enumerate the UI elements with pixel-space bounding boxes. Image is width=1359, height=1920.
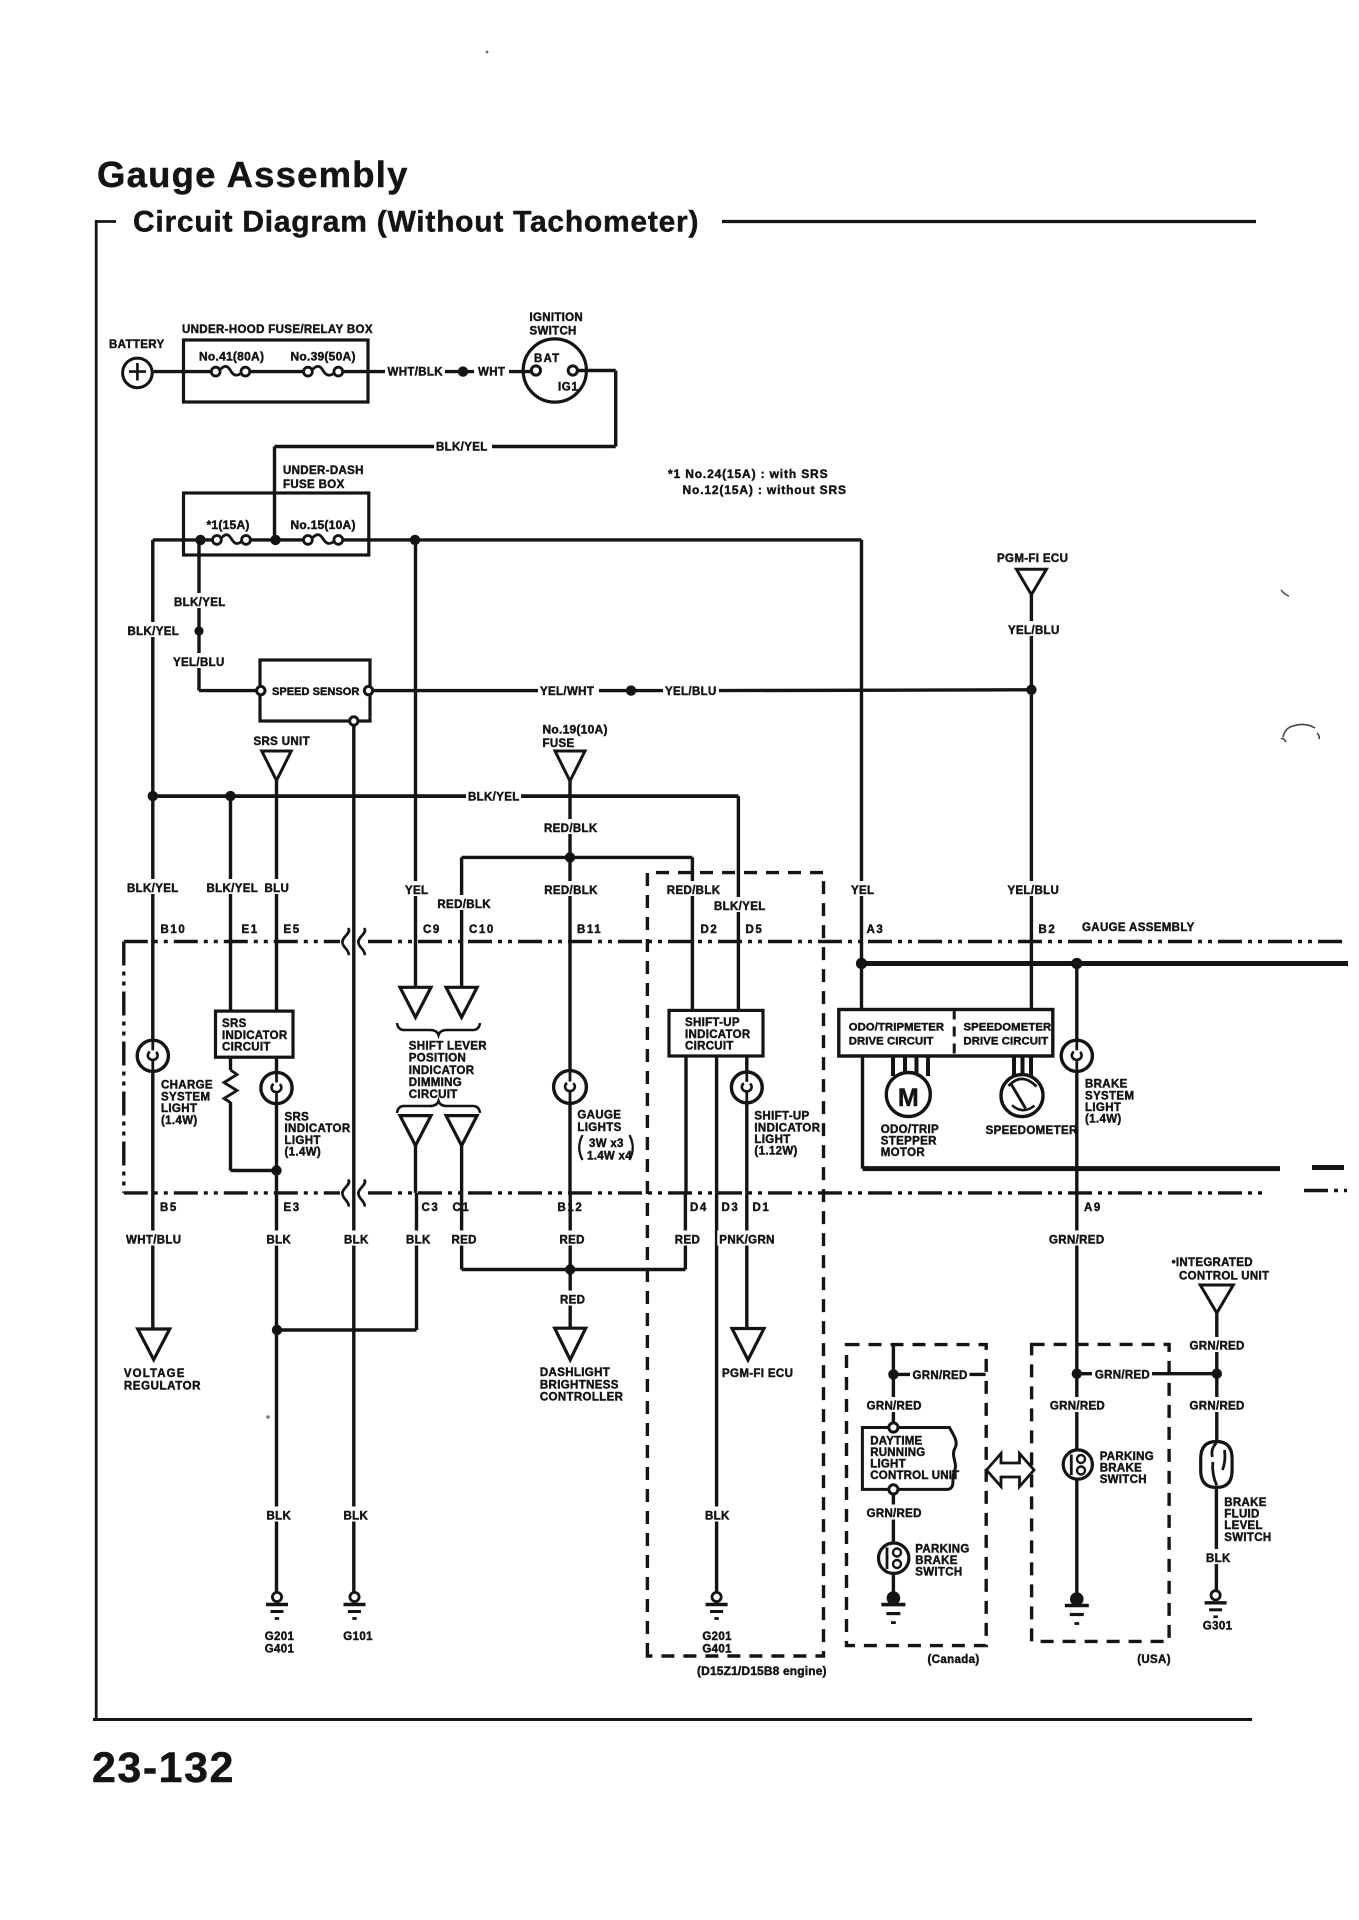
junction dot E3/C3 (272, 1325, 282, 1335)
wire speed-sensor feed riser (197, 540, 200, 691)
junction dot Canada GRN/RED (888, 1369, 898, 1379)
svg-text:(1.4W): (1.4W) (161, 1115, 198, 1127)
label YEL/BLU below ECU (1006, 621, 1060, 636)
svg-text:CIRCUIT: CIRCUIT (685, 1041, 734, 1053)
svg-text:FUSE: FUSE (543, 738, 575, 750)
junction dot bus at B10 riser (148, 791, 158, 801)
svg-text:PARKING: PARKING (1100, 1451, 1154, 1463)
svg-text:GRN/RED: GRN/RED (1190, 1401, 1245, 1413)
junction dot USA GRN/RED (1072, 1369, 1082, 1379)
divider dashed between drive circuits (953, 1010, 956, 1057)
svg-text:No.19(10A): No.19(10A) (543, 723, 608, 737)
svg-text:*1 No.24(15A) : with SRS: *1 No.24(15A) : with SRS (668, 467, 828, 481)
label GRN/RED Canada below dot (865, 1397, 923, 1412)
svg-text:SHIFT-UP: SHIFT-UP (685, 1017, 740, 1029)
wire D1 column down (745, 1193, 748, 1329)
svg-text:BLK/YEL: BLK/YEL (128, 626, 180, 638)
svg-text:IGNITION: IGNITION (530, 312, 584, 324)
svg-text:BLU: BLU (265, 883, 290, 895)
ignition terminal IG1 (568, 366, 577, 375)
label BLK/YEL on B10 riser (126, 622, 180, 637)
svg-text:C9: C9 (423, 924, 441, 936)
svg-text:BLK: BLK (267, 1235, 292, 1247)
svg-text:B10: B10 (161, 924, 187, 936)
svg-text:SRS: SRS (222, 1018, 247, 1030)
wire C10 drop (460, 857, 463, 987)
svg-text:GRN/RED: GRN/RED (1095, 1369, 1150, 1381)
ground USA (1070, 1592, 1084, 1606)
svg-text:BRAKE: BRAKE (1224, 1497, 1266, 1509)
svg-text:BAT: BAT (534, 353, 560, 365)
connector triangle PGM-FI ECU top (1016, 569, 1046, 595)
label BLK/YEL on speed sensor feed (172, 593, 226, 608)
splice dot BLK/YEL to YEL/BLU (194, 626, 203, 635)
parking brake switch Canada (879, 1543, 909, 1573)
wire BLK/YEL down into under-dash fuse box (273, 447, 276, 540)
label RED at D4 (673, 1231, 702, 1246)
wire A3 into drive box (860, 964, 863, 1010)
shift-up indicator light bulb (731, 1072, 762, 1103)
label BLK above G201 right (703, 1507, 731, 1522)
svg-text:GRN/RED: GRN/RED (867, 1401, 922, 1413)
junction dot A3 bus (856, 958, 867, 969)
svg-text:Gauge Assembly: Gauge Assembly (97, 154, 409, 195)
speedometer pins (1012, 1056, 1016, 1077)
wire fluid switch to ground (1215, 1488, 1218, 1591)
dashed option box Canada (847, 1345, 987, 1646)
svg-text:D3: D3 (722, 1202, 740, 1214)
label RED at C1 (450, 1231, 479, 1246)
junction dot E5/E1 join (271, 1165, 281, 1175)
connector triangle SRS unit (262, 751, 292, 781)
page frame top-left tick (95, 220, 116, 223)
svg-text:LIGHT: LIGHT (870, 1459, 906, 1471)
svg-text:BLK/YEL: BLK/YEL (127, 883, 179, 895)
label YEL/BLU above B2 (1006, 881, 1061, 896)
shift lever triangle C9 (400, 987, 431, 1017)
connector triangle integrated control unit (1200, 1285, 1233, 1313)
svg-text:G201: G201 (702, 1631, 732, 1643)
double arrow between Canada and USA (987, 1454, 1035, 1487)
gauge assembly connector line bottom (124, 1191, 340, 1194)
svg-text:VOLTAGE: VOLTAGE (124, 1368, 186, 1380)
svg-text:RED/BLK: RED/BLK (667, 885, 721, 897)
wire below charge light (151, 1071, 154, 1193)
brake system light bulb (1075, 964, 1078, 1042)
wire C9 riser YEL (414, 540, 417, 987)
svg-text:B2: B2 (1039, 924, 1057, 936)
svg-text:INDICATOR: INDICATOR (285, 1123, 351, 1135)
svg-text:A9: A9 (1084, 1202, 1102, 1214)
junction dot brake light branch (1071, 958, 1082, 969)
gauge lights bulb (554, 1071, 587, 1104)
gauge assembly connector line top (124, 940, 340, 943)
svg-text:(USA): (USA) (1137, 1654, 1171, 1666)
svg-text:SYSTEM: SYSTEM (161, 1091, 210, 1103)
junction dot bus at E1 (225, 791, 235, 801)
svg-text:CONTROL UNIT: CONTROL UNIT (870, 1470, 959, 1482)
wire A9 to parking brake switch USA (1075, 1374, 1078, 1450)
wire BLK/YEL horizontal to under-dash box (492, 445, 616, 448)
wire fuse1 to center node (250, 538, 303, 541)
svg-text:RED: RED (560, 1235, 585, 1247)
junction dot PGM-FI ECU node (1026, 685, 1036, 695)
wire D5 drop from bus (737, 796, 740, 1010)
label (3Wx3 1.4Wx4) (579, 1135, 582, 1160)
svg-text:RED/BLK: RED/BLK (544, 885, 598, 897)
break mark left lower (342, 1180, 349, 1205)
svg-text:No.12(15A) : without SRS: No.12(15A) : without SRS (683, 483, 847, 497)
wire speed sensor ground column upper (352, 725, 355, 1592)
svg-text:INDICATOR: INDICATOR (409, 1065, 475, 1077)
svg-text:WHT: WHT (478, 367, 505, 379)
junction dot ICU GRN/RED (1212, 1369, 1222, 1379)
svg-text:UNDER-HOOD FUSE/RELAY BOX: UNDER-HOOD FUSE/RELAY BOX (182, 324, 373, 336)
under-hood fuse/relay box (184, 340, 369, 402)
svg-text:POSITION: POSITION (409, 1053, 466, 1065)
shift-up indicator circuit box (669, 1010, 763, 1056)
voltage regulator triangle (138, 1329, 170, 1360)
wire WHT/BLK to node (445, 370, 474, 373)
svg-text:GAUGE ASSEMBLY: GAUGE ASSEMBLY (1082, 922, 1195, 934)
wire IG1 to corner (577, 369, 615, 372)
wire C1 column down (460, 1193, 463, 1270)
svg-text:IG1: IG1 (558, 382, 578, 394)
wire D2 drop (691, 857, 694, 1010)
junction dot C9 branch (410, 535, 420, 545)
svg-text:E1: E1 (242, 924, 259, 936)
label RED/BLK above D2 (665, 881, 721, 896)
label BLK above G201 left (265, 1507, 293, 1522)
brake fluid level switch (1201, 1442, 1232, 1488)
splice dot YEL/WHT to YEL/BLU (626, 685, 636, 695)
wire D4 from box (684, 1056, 687, 1193)
svg-text:RED: RED (675, 1235, 700, 1247)
svg-text:G301: G301 (1203, 1621, 1233, 1633)
label GRN/RED above fluid switch (1188, 1397, 1246, 1412)
svg-text:D5: D5 (746, 924, 764, 936)
DRL control unit terminal bottom (889, 1485, 898, 1494)
wire SRS triangle stub (275, 781, 278, 797)
label RED below B12 junction (558, 1291, 587, 1306)
svg-text:E5: E5 (284, 924, 301, 936)
wire C3 jog to E3 (277, 1328, 417, 1331)
break mark right lower (358, 1180, 365, 1205)
resistor SRS indicator (229, 1057, 232, 1070)
svg-text:INDICATOR: INDICATOR (685, 1029, 751, 1041)
svg-text:B11: B11 (577, 924, 602, 936)
label WHT/BLU (124, 1231, 182, 1246)
svg-text:SWITCH: SWITCH (1224, 1532, 1271, 1544)
label BLU above E5 (263, 879, 291, 894)
svg-text:GRN/RED: GRN/RED (913, 1370, 968, 1382)
wire D3 column to ground (715, 1193, 718, 1592)
svg-text:CHARGE: CHARGE (161, 1080, 213, 1092)
svg-text:RED/BLK: RED/BLK (437, 899, 491, 911)
svg-text:(D15Z1/D15B8 engine): (D15Z1/D15B8 engine) (697, 1664, 827, 1678)
wire into fuse row from left riser (153, 538, 213, 541)
wire fuse box to WHT/BLK label (343, 370, 385, 373)
svg-text:DRIVE CIRCUIT: DRIVE CIRCUIT (849, 1036, 934, 1048)
ignition terminal BAT (531, 366, 540, 375)
svg-text:BATTERY: BATTERY (109, 339, 164, 351)
svg-text:PARKING: PARKING (915, 1544, 969, 1556)
dashed option box USA (1032, 1344, 1170, 1641)
label GRN/RED Canada lower (865, 1505, 923, 1520)
wire below gauge lights (568, 1103, 571, 1193)
wire into speed sensor (199, 689, 257, 692)
break mark left at speed sensor wire (342, 929, 349, 954)
charge system light bulb (151, 1041, 154, 1072)
wire D1 from box to bulb (745, 1056, 748, 1073)
PGM-FI ECU triangle bottom (732, 1329, 764, 1361)
wire D4 column down (684, 1193, 687, 1270)
wire switch to ground USA (1075, 1479, 1078, 1595)
wire ICU down (1215, 1313, 1218, 1442)
svg-text:D4: D4 (690, 1202, 708, 1214)
wire B10 riser lower part (151, 796, 154, 1040)
svg-text:E3: E3 (284, 1202, 301, 1214)
speck top (486, 51, 489, 54)
label RED/BLK above C10 (435, 895, 491, 910)
svg-text:M: M (898, 1084, 919, 1112)
wire below shift-up light (745, 1103, 748, 1193)
wire E1 jog to E5 column (231, 1169, 277, 1172)
DRL control unit terminal top (889, 1423, 898, 1432)
svg-text:SRS: SRS (285, 1112, 310, 1124)
svg-text:GAUGE: GAUGE (577, 1110, 621, 1122)
label BLK above G101 (342, 1507, 370, 1522)
wire B11 drop (568, 857, 571, 1071)
svg-text:GRN/RED: GRN/RED (1190, 1341, 1245, 1353)
label BLK at C3 (404, 1231, 432, 1246)
svg-text:LIGHT: LIGHT (754, 1134, 790, 1146)
shift lever triangle C10 (446, 987, 477, 1017)
label YEL/BLU on speed sensor feed (171, 653, 226, 668)
svg-text:CONTROL UNIT: CONTROL UNIT (1179, 1271, 1269, 1283)
svg-text:WHT/BLU: WHT/BLU (126, 1235, 181, 1247)
svg-text:G201: G201 (265, 1631, 295, 1643)
svg-text:BLK: BLK (406, 1235, 431, 1247)
svg-text:MOTOR: MOTOR (881, 1147, 926, 1159)
wire battery to under-hood box (152, 370, 211, 373)
svg-text:BLK: BLK (344, 1235, 369, 1247)
svg-text:SWITCH: SWITCH (915, 1567, 962, 1579)
label BLK/YEL above D5 (712, 897, 767, 912)
svg-text:CONTROLLER: CONTROLLER (540, 1391, 624, 1403)
svg-text:1.4W x4: 1.4W x4 (587, 1151, 632, 1163)
svg-text:DASHLIGHT: DASHLIGHT (540, 1367, 610, 1379)
lower brace (397, 1101, 480, 1113)
wire B12 column down (569, 1193, 572, 1328)
junction dot WHT node (458, 366, 468, 376)
svg-text:STEPPER: STEPPER (881, 1135, 937, 1147)
svg-text:PGM-FI ECU: PGM-FI ECU (722, 1368, 793, 1380)
under-dash fuse box (184, 493, 369, 555)
svg-text:CIRCUIT: CIRCUIT (222, 1042, 271, 1054)
thick ground bus continuation right (1312, 1165, 1344, 1170)
wire E3 column to ground (275, 1193, 278, 1592)
svg-text:(1.12W): (1.12W) (754, 1146, 797, 1158)
battery B+ symbol (123, 358, 153, 388)
svg-text:PNK/GRN: PNK/GRN (719, 1235, 774, 1247)
label RED/BLK above B11 (542, 881, 598, 896)
svg-text:YEL/BLU: YEL/BLU (1008, 885, 1060, 897)
svg-text:ODO/TRIP: ODO/TRIP (881, 1124, 939, 1136)
svg-text:SPEEDOMETER: SPEEDOMETER (964, 1022, 1052, 1034)
wire PGM-FI ECU down to node (1030, 595, 1033, 690)
SRS indicator circuit box (216, 1011, 294, 1057)
ignition switch body (523, 339, 586, 402)
label BLK/YEL above E1 (205, 879, 259, 894)
wire GRN/RED to box edge (893, 1373, 910, 1376)
svg-text:DAYTIME: DAYTIME (870, 1436, 922, 1448)
svg-text:YEL/BLU: YEL/BLU (173, 657, 225, 669)
svg-text:INDICATOR: INDICATOR (754, 1122, 820, 1134)
wire D3 from box (715, 1056, 718, 1193)
svg-text:BLK: BLK (344, 1511, 369, 1523)
label BLK/YEL above B10 (125, 879, 179, 894)
wire down from IG1 (614, 371, 617, 447)
label PNK/GRN at D3/D1 (717, 1231, 776, 1246)
wire C3 column down (415, 1193, 418, 1330)
speed sensor box (260, 660, 370, 721)
svg-text:BLK: BLK (705, 1511, 730, 1523)
svg-text:GRN/RED: GRN/RED (867, 1508, 922, 1520)
svg-text:(1.4W): (1.4W) (285, 1146, 322, 1158)
svg-text:D1: D1 (753, 1202, 771, 1214)
svg-text:YEL/WHT: YEL/WHT (540, 686, 594, 698)
wire C1-D4 jog (462, 1268, 686, 1271)
wire speed sensor output YEL/WHT (373, 689, 538, 692)
svg-text:(Canada): (Canada) (928, 1654, 980, 1666)
svg-text:INDICATOR: INDICATOR (222, 1030, 288, 1042)
speedometer gauge symbol (1001, 1075, 1043, 1117)
svg-text:No.15(10A): No.15(10A) (291, 518, 356, 532)
gauge assembly box left edge (122, 942, 125, 1193)
svg-text:RUNNING: RUNNING (870, 1447, 925, 1459)
svg-text:BLK/YEL: BLK/YEL (468, 792, 520, 804)
wire YEL/BLU to PGM-FI ECU node (719, 688, 1031, 692)
wire WHT to ignition switch BAT (509, 370, 531, 373)
ground Canada (887, 1591, 901, 1605)
wire between fuses (250, 370, 304, 373)
wire RED/BLK horizontal C10 to D2 (462, 856, 693, 859)
label YEL above C9 (403, 881, 430, 896)
wire A3 riser from fuse box (860, 540, 863, 964)
svg-text:SPEEDOMETER: SPEEDOMETER (986, 1125, 1078, 1137)
svg-text:3W x3: 3W x3 (589, 1138, 624, 1150)
svg-text:UNDER-DASH: UNDER-DASH (283, 465, 364, 477)
svg-text:SYSTEM: SYSTEM (1085, 1090, 1134, 1102)
svg-text:BLK/YEL: BLK/YEL (174, 597, 226, 609)
label BLK at G301 (1204, 1549, 1232, 1564)
ground G201/G401 left (272, 1592, 281, 1601)
label YEL above A3 (849, 881, 876, 896)
connector triangle fuse No.19 (555, 751, 585, 781)
svg-text:BLK/YEL: BLK/YEL (714, 901, 766, 913)
svg-text:RED: RED (452, 1235, 477, 1247)
upper brace (397, 1023, 480, 1035)
SRS indicator light bulb (275, 1057, 278, 1073)
svg-text:FUSE BOX: FUSE BOX (283, 479, 345, 491)
dashlight brightness controller triangle (555, 1328, 586, 1360)
page frame left edge (95, 220, 98, 1720)
bus BLK/YEL horizontal (153, 794, 466, 798)
junction dot ignition feed (270, 535, 280, 545)
svg-text:GRN/RED: GRN/RED (1049, 1235, 1104, 1247)
svg-text:YEL: YEL (851, 885, 874, 897)
odo/speedometer drive circuit box (839, 1010, 1053, 1057)
svg-text:BRIGHTNESS: BRIGHTNESS (540, 1379, 619, 1391)
wire GRN/RED USA to ICU column (1077, 1372, 1092, 1375)
parking brake switch USA (1063, 1450, 1092, 1479)
svg-text:DRIVE CIRCUIT: DRIVE CIRCUIT (964, 1036, 1049, 1048)
wire B2 riser YEL/BLU (1030, 690, 1033, 1010)
dimming triangle C1 (446, 1116, 477, 1146)
ground G201/G401 right (712, 1592, 721, 1601)
svg-text:BLK/YEL: BLK/YEL (436, 442, 488, 454)
wire Canada feed down (892, 1345, 895, 1424)
wire switch to ground Canada (892, 1573, 895, 1594)
label GRN/RED at A9 (1047, 1231, 1105, 1246)
svg-text:SRS UNIT: SRS UNIT (254, 736, 310, 748)
svg-text:*1(15A): *1(15A) (207, 518, 250, 532)
svg-text:No.39(50A): No.39(50A) (291, 350, 356, 364)
wire below SRS light to junction (275, 1103, 278, 1193)
svg-text:ODO/TRIPMETER: ODO/TRIPMETER (849, 1022, 944, 1034)
svg-text:LIGHT: LIGHT (1085, 1102, 1121, 1114)
svg-text:SWITCH: SWITCH (1100, 1474, 1147, 1486)
speed sensor terminal left (257, 686, 265, 694)
svg-text:SHIFT LEVER: SHIFT LEVER (409, 1040, 487, 1052)
label BLK at speed sensor ground (342, 1231, 370, 1246)
label GRN/RED USA below dot (1048, 1397, 1106, 1412)
wire fuse2 output to A3 riser (343, 538, 862, 541)
daytime running light control unit box (torn edge) (862, 1428, 956, 1490)
wire DRL to parking brake switch (892, 1494, 895, 1544)
break mark right at speed sensor wire (358, 929, 365, 954)
wire B5 column to voltage regulator (151, 1193, 154, 1329)
thick ground bus bottom (863, 1166, 1281, 1171)
svg-text:LIGHT: LIGHT (161, 1103, 197, 1115)
svg-text:G401: G401 (702, 1644, 732, 1656)
speed sensor terminal right (364, 686, 372, 694)
svg-text:BRAKE: BRAKE (1085, 1079, 1128, 1091)
wire fuse No.19 stub down (568, 781, 571, 857)
bus feed thick line A3 (862, 961, 1349, 966)
dashed engine-option box D15Z1/D15B8 (647, 873, 823, 1656)
wire E5 drop from SRS stub (275, 796, 278, 1011)
svg-text:BRAKE: BRAKE (915, 1555, 957, 1567)
svg-text:RED: RED (560, 1295, 585, 1307)
svg-text:BLK: BLK (1206, 1553, 1231, 1565)
svg-text:LIGHTS: LIGHTS (577, 1122, 621, 1134)
svg-text:SHIFT-UP: SHIFT-UP (754, 1111, 809, 1123)
wire riser B10 column upper part (151, 540, 154, 796)
svg-text:LEVEL: LEVEL (1224, 1520, 1263, 1532)
svg-text:DIMMING: DIMMING (409, 1077, 462, 1089)
speck mid left (266, 1415, 270, 1419)
svg-text:SWITCH: SWITCH (530, 326, 577, 338)
label RED/BLK under fuse 19 (542, 819, 598, 834)
wire C3 to connector (414, 1146, 417, 1193)
ground G301 (1211, 1591, 1220, 1600)
svg-text:WHT/BLK: WHT/BLK (388, 367, 444, 379)
wire A9 column down into USA box (1075, 1193, 1078, 1374)
svg-text:BRAKE: BRAKE (1100, 1462, 1142, 1474)
svg-text:D2: D2 (701, 924, 719, 936)
